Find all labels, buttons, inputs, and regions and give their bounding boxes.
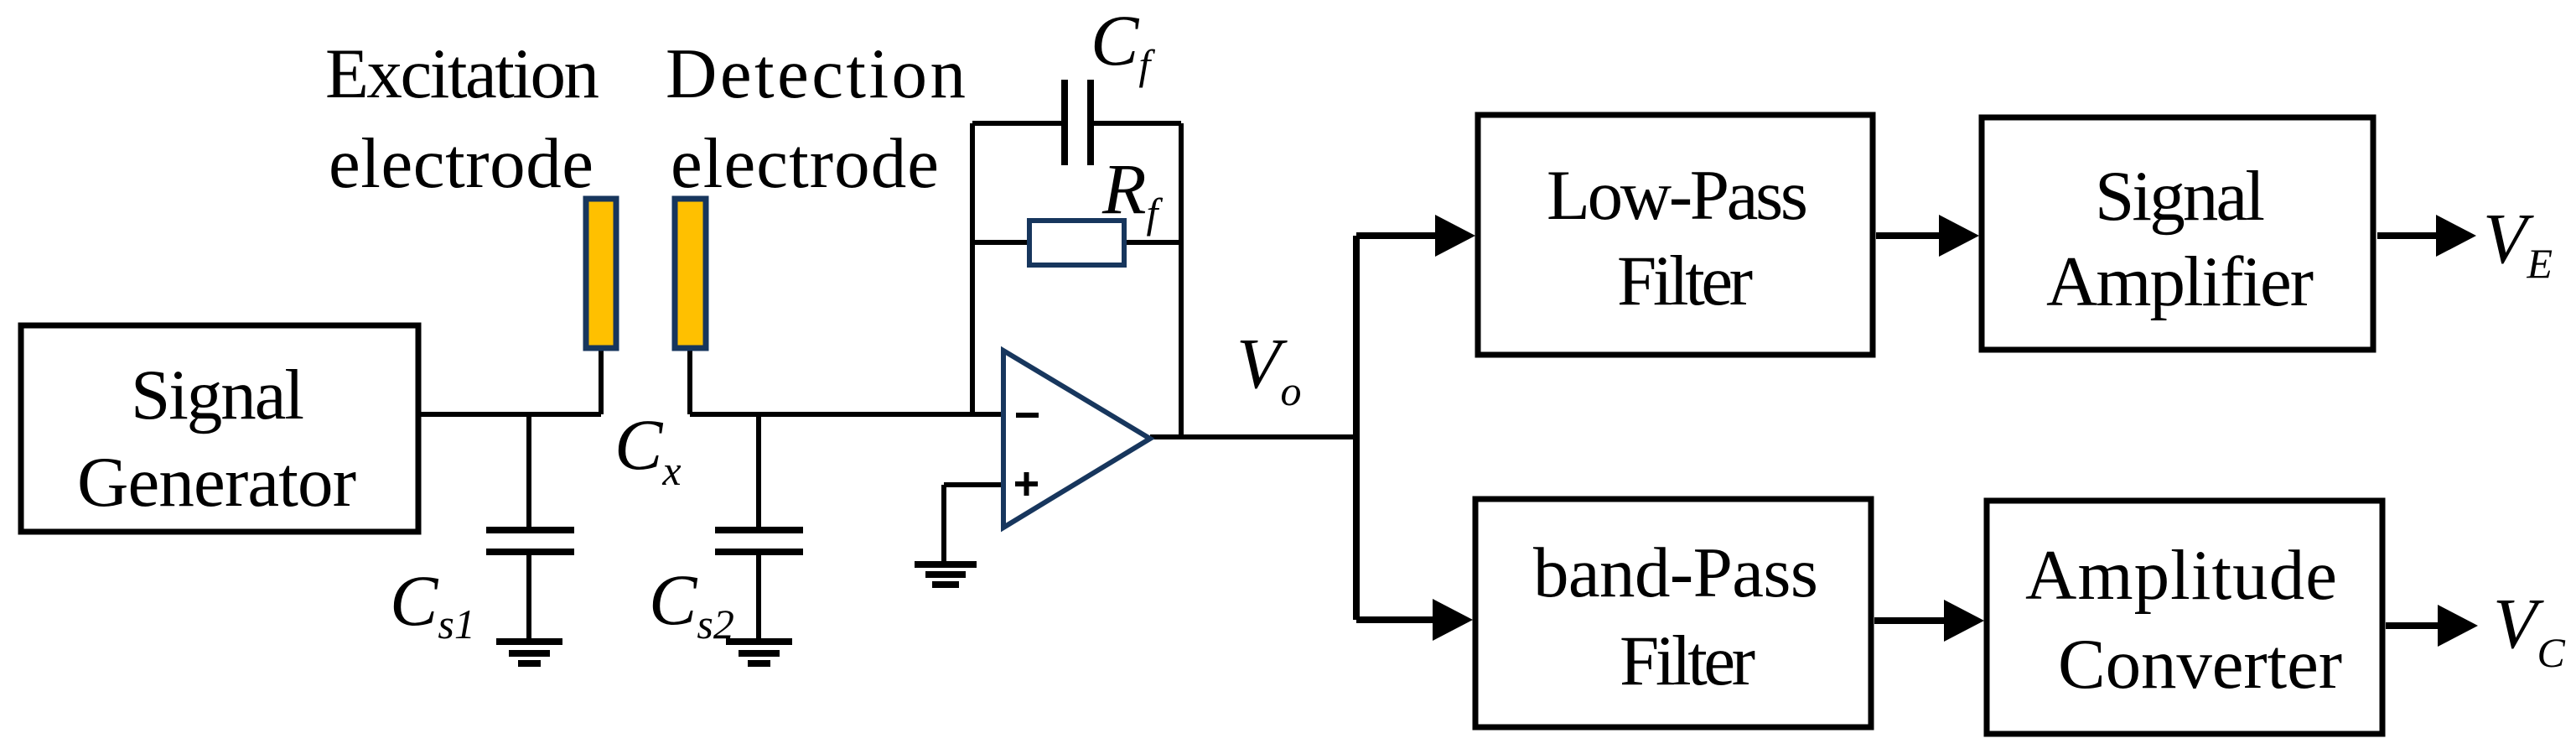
svg-text:electrode: electrode: [671, 124, 939, 203]
svg-text:Amplifier: Amplifier: [2046, 242, 2314, 321]
svg-text:Vo: Vo: [1236, 323, 1302, 414]
svg-text:electrode: electrode: [329, 124, 593, 203]
svg-text:Detection: Detection: [666, 34, 966, 113]
svg-text:Filter: Filter: [1617, 242, 1753, 320]
svg-text:band-Pass: band-Pass: [1533, 533, 1818, 612]
svg-text:VC: VC: [2493, 583, 2566, 676]
svg-text:VE: VE: [2483, 198, 2553, 287]
svg-text:Signal: Signal: [131, 356, 304, 434]
svg-text:Converter: Converter: [2058, 625, 2342, 704]
svg-text:Low-Pass: Low-Pass: [1547, 156, 1808, 235]
svg-text:Cx: Cx: [614, 404, 682, 494]
svg-text:Rf: Rf: [1101, 148, 1164, 237]
svg-text:Generator: Generator: [77, 443, 356, 522]
svg-text:Excitation: Excitation: [325, 34, 599, 113]
svg-text:Cs2: Cs2: [649, 559, 734, 647]
svg-text:Cf: Cf: [1091, 0, 1155, 88]
svg-text:Cs1: Cs1: [390, 560, 475, 647]
svg-text:Filter: Filter: [1620, 621, 1755, 700]
svg-text:Signal: Signal: [2095, 157, 2265, 236]
svg-text:Amplitude: Amplitude: [2025, 536, 2337, 615]
